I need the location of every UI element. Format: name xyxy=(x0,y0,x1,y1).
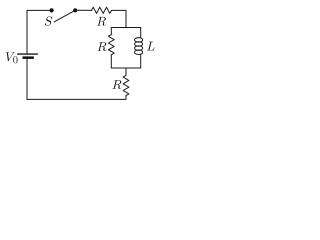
label L inductor xyxy=(147,42,155,51)
wire left rail top (battery + to top-left corner) xyxy=(26,10,28,53)
label R bottom resistor xyxy=(112,80,121,89)
wire bottom rail xyxy=(27,98,126,100)
wire switch to resistor R top xyxy=(75,9,91,11)
resistor R left branch (vertical zigzag) xyxy=(108,35,114,55)
resistor R bottom (vertical zigzag) xyxy=(123,75,129,95)
label V0 subscript xyxy=(13,56,17,63)
label V0 source xyxy=(6,52,15,61)
wire bottom junction bar xyxy=(111,67,140,69)
wire battery bottom to bottom rail xyxy=(26,59,28,100)
wire bottom resistor to bottom rail xyxy=(125,96,127,100)
resistor R top (horizontal zigzag) xyxy=(92,7,112,13)
inductor L (4 loops) xyxy=(135,38,143,43)
label R left branch resistor xyxy=(97,42,106,51)
wire left parallel branch top xyxy=(110,28,112,35)
battery V0 short thick plate xyxy=(23,56,34,59)
label S xyxy=(45,16,53,25)
wire left parallel branch bottom xyxy=(110,55,112,68)
switch S blade xyxy=(54,10,75,21)
switch contact dot 1 xyxy=(50,8,54,12)
wire bottom feed xyxy=(125,68,127,75)
wire top junction bar xyxy=(111,27,140,29)
wire right parallel branch bottom xyxy=(140,54,142,68)
battery V0 long plate xyxy=(18,53,38,55)
wire resistor to top-right corner xyxy=(112,10,127,27)
wire top rail to switch xyxy=(27,9,52,11)
wire right parallel branch top xyxy=(140,28,142,38)
switch contact dot 2 xyxy=(73,8,77,12)
label R top resistor xyxy=(97,17,106,26)
